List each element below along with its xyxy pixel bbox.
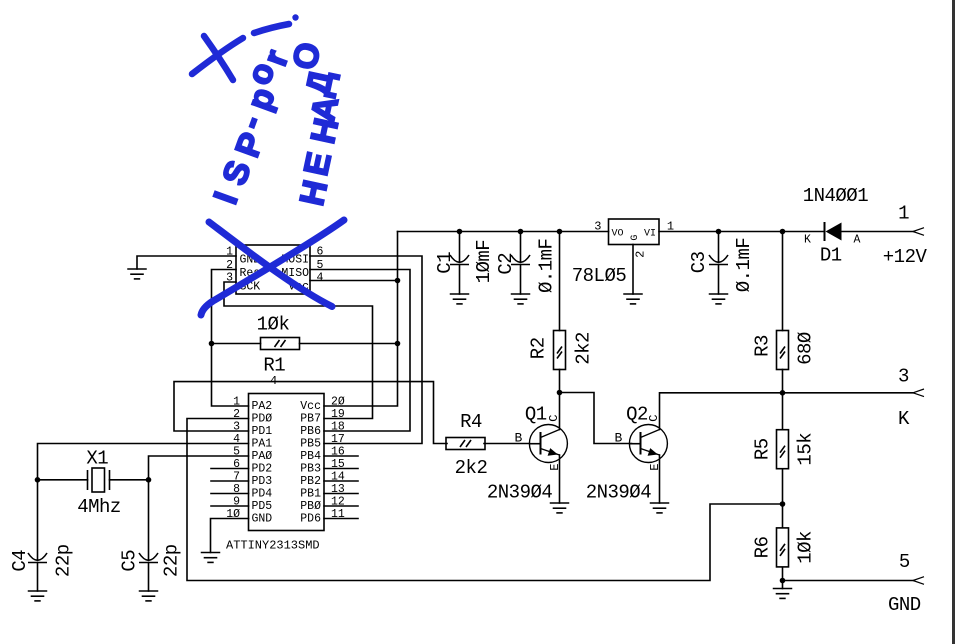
- svg-text:5: 5: [899, 551, 910, 573]
- ground ISP pin1: [127, 269, 147, 279]
- svg-text:E: E: [548, 463, 562, 470]
- wire IC pin 15 stub: [324, 468, 358, 470]
- node junction K: [780, 390, 786, 396]
- wire C2 top lead: [520, 232, 522, 263]
- svg-text:3: 3: [233, 421, 240, 434]
- node junction R3 rail: [780, 229, 786, 235]
- wire IC pin 14 stub: [324, 480, 358, 482]
- svg-text:16: 16: [331, 446, 345, 459]
- wire Q2 emitter to ground: [659, 455, 661, 503]
- connector pin 3 arrow: [913, 389, 924, 397]
- wire ISP pin3 SCK to IC pin 19 PB7: [224, 282, 373, 419]
- wire Vcc net vertical to IC pin 20: [324, 232, 398, 407]
- transistor Q2: [629, 425, 667, 463]
- node junction R1 right: [395, 341, 401, 347]
- svg-text:4: 4: [270, 374, 277, 388]
- wire R5 bottom to node: [782, 469, 784, 504]
- handwritten letter t cross stroke 2: [204, 36, 233, 80]
- node junction R6 ground: [780, 578, 786, 584]
- svg-text:PAØ: PAØ: [252, 450, 273, 463]
- svg-text:78LØ5: 78LØ5: [572, 265, 627, 287]
- wire R2 bottom to Q1 collector node: [559, 370, 561, 393]
- wire IC pin 4 PA1 to crystal/C4 node: [38, 444, 249, 480]
- wire crystal right lead: [110, 479, 149, 481]
- svg-text:2k2: 2k2: [572, 332, 594, 365]
- svg-text:PD1: PD1: [252, 425, 273, 438]
- ground C4: [28, 591, 48, 601]
- svg-text:R6: R6: [752, 536, 774, 558]
- node junction ISP Vcc: [395, 278, 401, 284]
- wire IC pin 7 stub: [211, 480, 249, 482]
- ground C5: [139, 591, 159, 601]
- handwritten letter t cross stroke 1: [192, 38, 243, 74]
- svg-text:PA2: PA2: [252, 400, 273, 413]
- svg-text:A: A: [853, 233, 860, 246]
- svg-text:2: 2: [634, 251, 648, 258]
- svg-text:7: 7: [233, 471, 240, 484]
- wire C3 top lead: [718, 232, 720, 263]
- wire IC pin 2 PD0 to R5/R6 junction: [187, 419, 783, 581]
- svg-text:4Mhz: 4Mhz: [77, 496, 121, 518]
- svg-text:B: B: [514, 431, 522, 446]
- svg-text:22p: 22p: [160, 544, 182, 577]
- wire regulator pin 2 to ground: [632, 245, 634, 295]
- wire ISP pin5 MISO to IC pin 18 PB6: [310, 270, 410, 432]
- IC right pin numbers 20-11: [331, 396, 345, 522]
- handwritten cross stroke over ISP (down-left): [201, 220, 344, 315]
- handwritten cross stroke over ISP (down-right): [209, 222, 332, 307]
- wire IC pin 13 stub: [324, 493, 358, 495]
- handwritten dot: [292, 14, 298, 20]
- svg-text:C1: C1: [434, 252, 456, 274]
- svg-text:2k2: 2k2: [455, 457, 488, 479]
- svg-text:PD3: PD3: [252, 475, 273, 488]
- wire R6 bottom to ground node: [782, 568, 784, 581]
- resistor R6: [777, 528, 789, 567]
- handwritten dash after ISP-port: [254, 24, 289, 33]
- node junction X1/C5: [146, 477, 152, 483]
- wire IC pin 8 stub: [211, 493, 249, 495]
- svg-text:PD6: PD6: [300, 513, 321, 526]
- svg-text:PB1: PB1: [300, 488, 321, 501]
- capacitor C4: [28, 553, 47, 563]
- svg-text:PB7: PB7: [300, 413, 321, 426]
- crystal X1: [88, 468, 110, 492]
- regulator U2 78L05 box: [609, 219, 660, 245]
- connector ISP box: [236, 245, 310, 294]
- node junction C1 rail: [457, 229, 463, 235]
- capacitor C1: [450, 255, 469, 265]
- svg-text:68Ø: 68Ø: [794, 332, 816, 365]
- svg-text:K: K: [898, 408, 910, 430]
- wire ground node to connector pin 5: [783, 580, 914, 582]
- svg-text:12: 12: [331, 496, 345, 509]
- svg-text:1: 1: [898, 203, 909, 225]
- diode D1 cathode bar: [824, 222, 826, 241]
- svg-text:X1: X1: [86, 447, 108, 469]
- svg-text:17: 17: [331, 433, 345, 446]
- svg-text:19: 19: [331, 408, 345, 421]
- svg-text:2: 2: [226, 259, 233, 272]
- svg-text:18: 18: [331, 421, 345, 434]
- svg-text:3: 3: [898, 366, 909, 388]
- svg-text:15: 15: [331, 458, 345, 471]
- wire +5V rail from Vcc net to regulator VO: [398, 231, 609, 233]
- wire C4 bottom lead: [37, 563, 39, 592]
- IC left pin numbers 1-10: [226, 396, 240, 522]
- svg-text:PB2: PB2: [300, 475, 321, 488]
- svg-text:PBØ: PBØ: [300, 500, 321, 513]
- svg-text:4: 4: [233, 433, 240, 446]
- svg-text:6: 6: [233, 458, 240, 471]
- node junction R2 rail: [557, 229, 563, 235]
- wire R1 right lead: [300, 343, 398, 345]
- svg-text:PA1: PA1: [252, 438, 273, 451]
- svg-text:Vcc: Vcc: [300, 400, 321, 413]
- wire IC pin 12 stub: [324, 505, 358, 507]
- node junction Q1 collector: [557, 390, 563, 396]
- svg-text:GND: GND: [888, 594, 921, 616]
- svg-text:2Ø: 2Ø: [331, 396, 345, 409]
- svg-text:1: 1: [233, 396, 240, 409]
- svg-text:6: 6: [317, 246, 324, 259]
- wire R1 left lead: [212, 343, 261, 345]
- resistor R3: [777, 331, 789, 370]
- svg-text:15k: 15k: [794, 433, 816, 466]
- wire IC pin 9 stub: [211, 505, 249, 507]
- IC right pin names: [300, 400, 321, 526]
- node junction X1/C4: [35, 477, 41, 483]
- svg-text:11: 11: [331, 508, 345, 521]
- resistor R5: [777, 430, 789, 469]
- svg-text:C: C: [547, 415, 561, 422]
- ground C1: [450, 294, 470, 304]
- transistor Q1: [529, 425, 567, 463]
- node junction R5/R6: [780, 501, 786, 507]
- wire C1 top lead: [459, 232, 461, 263]
- svg-text:PD5: PD5: [252, 500, 273, 513]
- node junction R1 left: [209, 341, 215, 347]
- svg-text:22p: 22p: [53, 544, 75, 577]
- wire diode anode to connector pin 1: [842, 231, 914, 233]
- svg-text:1: 1: [226, 246, 233, 259]
- svg-text:VI: VI: [644, 229, 656, 240]
- capacitor C2: [511, 255, 530, 265]
- wire ground node stub: [782, 581, 784, 589]
- svg-text:K: K: [804, 233, 811, 246]
- ground R6: [773, 589, 793, 599]
- wire ISP pin1 to ground: [137, 256, 236, 269]
- svg-text:C5: C5: [119, 550, 141, 572]
- svg-text:B: B: [614, 431, 622, 446]
- wire IC pin 16 stub: [324, 455, 358, 457]
- svg-text:R3: R3: [752, 335, 774, 357]
- svg-text:3: 3: [594, 220, 601, 234]
- wire Q1 emitter to ground: [559, 455, 561, 503]
- svg-text:Q1: Q1: [525, 404, 547, 426]
- svg-text:R2: R2: [528, 337, 550, 359]
- svg-text:1: 1: [667, 220, 674, 234]
- wire Q2 collector to node K: [660, 393, 783, 430]
- svg-text:Ø.1mF: Ø.1mF: [535, 238, 557, 293]
- wire node K to connector pin 3: [783, 392, 914, 394]
- svg-text:2N39Ø4: 2N39Ø4: [586, 481, 652, 503]
- svg-text:14: 14: [331, 471, 345, 484]
- svg-text:GND: GND: [252, 513, 273, 526]
- node junction C3 rail: [716, 229, 722, 235]
- IC U1 ATTINY2313SMD box: [249, 394, 325, 531]
- resistor R4: [446, 438, 485, 450]
- svg-text:4: 4: [317, 272, 324, 285]
- svg-text:D1: D1: [820, 245, 842, 267]
- ground Q1 emitter: [550, 503, 570, 513]
- svg-text:1ØmF: 1ØmF: [473, 240, 495, 284]
- wire C2 bottom lead: [520, 265, 522, 295]
- svg-text:2N39Ø4: 2N39Ø4: [487, 481, 553, 503]
- wire C3 bottom lead: [718, 265, 720, 295]
- svg-text:G: G: [630, 235, 641, 241]
- handwritten text HE HADO (Cyrillic): [286, 39, 346, 209]
- ground IC pin10: [201, 553, 221, 563]
- capacitor C3: [709, 255, 728, 265]
- svg-text:VO: VO: [612, 229, 624, 240]
- wire ISP pin6 MOSI to IC pin 17 PB5: [310, 256, 422, 444]
- svg-text:+12V: +12V: [883, 246, 928, 268]
- svg-text:1Øk: 1Øk: [257, 313, 290, 335]
- connector pin 5 arrow: [913, 577, 924, 585]
- wire IC pin 11 stub: [324, 518, 358, 520]
- ground C3: [709, 294, 729, 304]
- svg-text:PD4: PD4: [252, 488, 273, 501]
- wire C5 bottom lead: [148, 563, 150, 592]
- svg-text:C2: C2: [495, 253, 517, 275]
- svg-text:PB4: PB4: [300, 450, 321, 463]
- svg-text:PB5: PB5: [300, 438, 321, 451]
- svg-text:1N4ØØ1: 1N4ØØ1: [803, 185, 869, 207]
- wire rail to R3 top: [782, 232, 784, 331]
- resistor R2: [554, 331, 566, 370]
- node junction C2 rail: [518, 229, 524, 235]
- svg-text:1Ø: 1Ø: [226, 508, 240, 521]
- wire net 4: IC pin 3 PD1 to R4: [174, 382, 447, 444]
- sheet right border: [952, 0, 955, 644]
- svg-text:3: 3: [226, 272, 233, 285]
- connector pin 1 arrow: [913, 228, 924, 236]
- wire R3 bottom to node K: [782, 370, 784, 393]
- wire crystal left lead: [38, 479, 88, 481]
- wire C1 bottom lead: [459, 265, 461, 295]
- svg-text:Q2: Q2: [626, 404, 648, 426]
- ground Q2 emitter: [650, 503, 670, 513]
- svg-text:PB3: PB3: [300, 463, 321, 476]
- capacitor C5: [139, 553, 158, 563]
- wire C4 top lead: [37, 480, 39, 560]
- wire rail from regulator VI to diode cathode: [659, 231, 825, 233]
- svg-text:C3: C3: [688, 251, 710, 273]
- wire ISP pin4 Vcc to Vcc net: [310, 280, 398, 282]
- svg-text:PB6: PB6: [300, 425, 321, 438]
- wire Q1 collector node to Q2 base: [560, 393, 632, 444]
- svg-text:C4: C4: [9, 550, 31, 572]
- wire R4 to Q1 base: [484, 443, 530, 445]
- wire IC pin 5 PA0 to crystal/C5 node: [149, 456, 249, 480]
- svg-text:8: 8: [233, 483, 240, 496]
- svg-text:5: 5: [233, 446, 240, 459]
- svg-text:2: 2: [233, 408, 240, 421]
- svg-text:PDØ: PDØ: [252, 413, 273, 426]
- resistor R1: [261, 338, 300, 350]
- svg-text:R4: R4: [460, 411, 482, 433]
- wire node to R6 top: [782, 504, 784, 528]
- wire Q1 collector stub: [559, 393, 561, 430]
- IC left pin names: [252, 400, 273, 526]
- diode D1 triangle: [826, 223, 842, 241]
- svg-text:5: 5: [317, 259, 324, 272]
- svg-text:E: E: [648, 463, 662, 470]
- wire IC pin 6 stub: [211, 468, 249, 470]
- svg-text:ATTINY2313SMD: ATTINY2313SMD: [226, 539, 320, 553]
- wire C5 top lead: [148, 480, 150, 560]
- handwritten text ISP-por: [207, 45, 297, 209]
- wire ISP pin2 Res to R1 left and IC pin 1: [212, 270, 249, 407]
- svg-text:C: C: [647, 415, 661, 422]
- svg-text:1Øk: 1Øk: [794, 531, 816, 564]
- svg-text:13: 13: [331, 483, 345, 496]
- svg-text:Ø.1mF: Ø.1mF: [733, 238, 755, 293]
- wire IC pin 10 GND to ground: [211, 519, 249, 553]
- ground C2: [511, 294, 531, 304]
- svg-text:R5: R5: [752, 438, 774, 460]
- ground regulator: [623, 294, 643, 304]
- wire rail to R2 top: [559, 232, 561, 331]
- svg-text:PD2: PD2: [252, 463, 273, 476]
- wire node K to R5 top: [782, 393, 784, 430]
- svg-text:9: 9: [233, 496, 240, 509]
